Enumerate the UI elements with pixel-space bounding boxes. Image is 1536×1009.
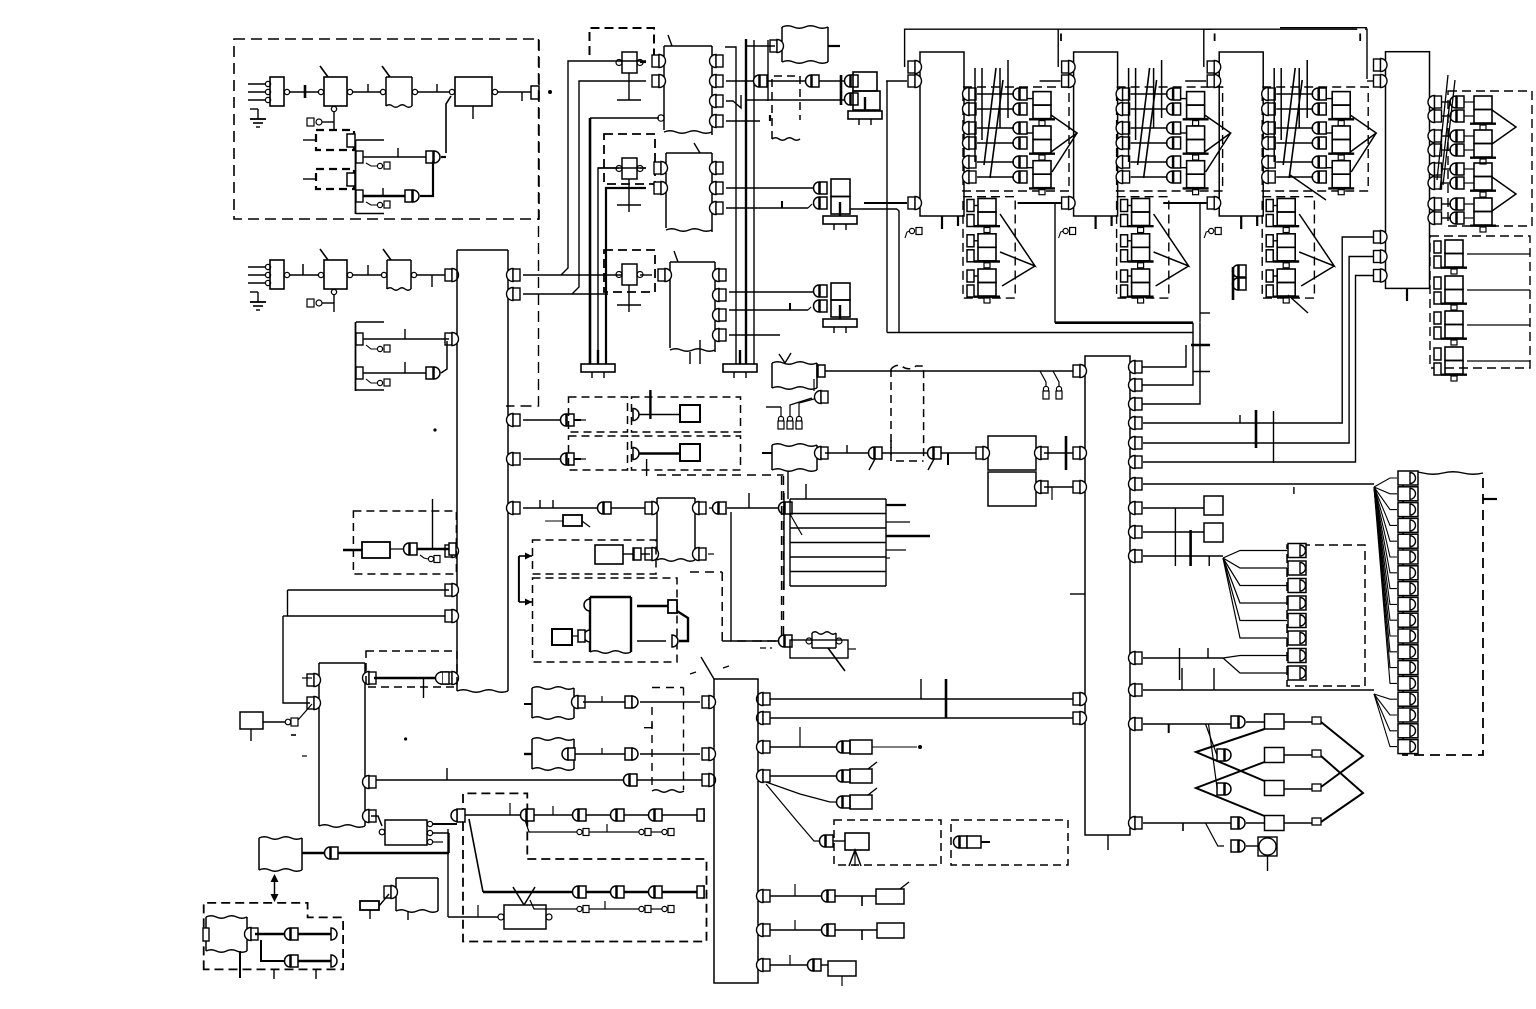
unit conn1 [1167, 103, 1173, 115]
subwire 832 [525, 820, 577, 832]
unit injwireB0a [1273, 205, 1277, 207]
chevron R1 [1321, 722, 1363, 787]
U4 bottom stub [1406, 288, 1408, 301]
switch S3 [324, 260, 347, 289]
unit top bus [1204, 29, 1357, 67]
unit injwireB1a [1273, 240, 1277, 242]
ECU2 Lpin487 [1073, 481, 1080, 493]
connector block B5 [270, 260, 284, 289]
conn fm2 [625, 748, 632, 760]
TB0 pin R3 [363, 810, 369, 823]
TB1 left pin 339 [445, 333, 452, 345]
unit wire4 [1276, 161, 1313, 163]
unit conn3 [1312, 137, 1318, 149]
wire RL1 out [640, 61, 646, 63]
wire w2c [417, 274, 448, 276]
wire row965 [766, 964, 808, 966]
wire row853 heavy [338, 852, 449, 854]
fan DB8 low [1223, 656, 1287, 659]
unit wire5 [1131, 176, 1168, 178]
fan DB18 bot [1374, 694, 1397, 699]
pin bus row1 [356, 151, 363, 163]
pin P_out [531, 86, 539, 99]
U4 wire1b [1442, 149, 1451, 151]
motor M2 [504, 905, 546, 929]
IC5 box [590, 596, 631, 598]
unit top bus [905, 29, 1058, 67]
U3 diag up [1290, 175, 1326, 200]
unit injwire1 [1181, 132, 1187, 134]
unit wire2 [1131, 127, 1168, 129]
dashed A1 [569, 397, 628, 432]
unit wire3 [1276, 142, 1313, 144]
wire row930b [835, 929, 877, 931]
ground G1 [597, 350, 599, 364]
fuel dash [760, 647, 772, 649]
unit pin L3 [908, 197, 915, 209]
IC1 left pin2 [652, 75, 659, 87]
unit wire L3 [1018, 202, 1061, 204]
radiator [790, 498, 886, 500]
unit l2 pin1a [967, 235, 974, 247]
wire RD out2 [1044, 486, 1077, 488]
U4 pinR0b [1428, 110, 1434, 123]
IC2 box [666, 152, 712, 154]
wire w1c [418, 91, 449, 93]
ECU2 Lpin453 [1073, 447, 1080, 459]
unit tall box [1074, 52, 1118, 216]
bus tick U3toU4 [1365, 29, 1367, 79]
TB2 top dashes [690, 672, 696, 674]
wire A2 out [420, 161, 433, 196]
wire row815 d [586, 814, 611, 816]
IC3 box [670, 261, 715, 263]
ECU2 Lpin699 [1073, 693, 1080, 705]
DB8 conn1 [1288, 561, 1306, 575]
flag FM2 [532, 738, 574, 741]
conn row815 e [611, 809, 617, 821]
xdiag feed2 [1206, 724, 1217, 755]
bracket bus [355, 322, 357, 391]
branch row373 [366, 379, 377, 383]
DB18 conn15 [1398, 708, 1418, 722]
wire x1b [1246, 721, 1264, 723]
box BH930 [877, 923, 904, 938]
dashed rect mid [651, 707, 653, 790]
bus bar top [1191, 344, 1210, 347]
unit conn5 [1013, 171, 1019, 183]
U4 conn2a [1450, 163, 1456, 175]
U3 diag low [1288, 295, 1308, 313]
vbus v736 [725, 47, 736, 364]
V antenna [513, 887, 524, 905]
U4b stub1 [1467, 289, 1530, 291]
U4b pin1a [1434, 277, 1441, 289]
wire IC2pinA L [598, 168, 646, 364]
dashed relay D2 [316, 130, 354, 150]
unit wire0 [977, 93, 1014, 95]
rect x2 [1312, 750, 1321, 757]
unit wire4 [1131, 161, 1168, 163]
DB18 conn17 [1398, 740, 1418, 754]
DB8 conn5 [1288, 631, 1306, 645]
fuel stub r [848, 648, 856, 650]
unit injector0 [1033, 92, 1051, 106]
B2 drop [646, 459, 648, 476]
U4 wire1a [1442, 135, 1451, 137]
gate A2 [405, 190, 412, 202]
IC4 in pin2 [645, 548, 652, 560]
TB2 pin L780 [702, 774, 709, 786]
unit dashed injbox [1117, 87, 1223, 191]
conn row459 [561, 453, 567, 465]
unit injwireB2a [1273, 275, 1277, 277]
U4 pinR3b [1428, 212, 1434, 225]
TB0 L1 stub [302, 677, 312, 679]
vbus v700 [699, 340, 701, 364]
AC bulb3 [796, 416, 801, 421]
bracket pin row339 [356, 333, 363, 345]
flag T1 pin [770, 40, 777, 52]
TB1 left pin 678 [445, 672, 452, 684]
unit wire5 [1276, 176, 1313, 178]
fan DB18 top [1374, 478, 1397, 487]
DB8 conn0 [1288, 544, 1306, 558]
wire w2b [353, 274, 381, 276]
unit arrow [1205, 115, 1231, 152]
ground G2 [739, 350, 741, 364]
feed U3 L3 [1200, 203, 1207, 323]
wire row508c [709, 507, 713, 509]
unit injector0 [1332, 92, 1350, 106]
DB18 conn11 [1398, 645, 1418, 659]
conn row815 g [649, 809, 655, 821]
wire row892 f [662, 891, 697, 893]
sensor S1 dbl [845, 75, 851, 87]
conn row420 [561, 414, 567, 426]
unit injector0 [1187, 92, 1205, 106]
unit conn0 [1013, 88, 1019, 100]
unit l2 pin1b [1266, 250, 1273, 262]
IC1 right pin3 [710, 95, 717, 108]
U4 conn3a [1450, 198, 1456, 210]
dashed DB18 [1403, 472, 1483, 755]
conn row747 [837, 741, 843, 753]
connector at S3 [307, 299, 314, 307]
conn row81 a [754, 75, 760, 87]
wire row453 c [882, 452, 928, 454]
U4b pin3a [1434, 348, 1441, 360]
S1 coil wire [333, 112, 335, 122]
chevron L2 [1196, 762, 1265, 816]
wire IC1pinB L [572, 81, 646, 294]
conn T551 [390, 548, 404, 550]
wire x5 [1246, 845, 1258, 847]
unit wire2 [1276, 127, 1313, 129]
wire row896b [835, 895, 876, 897]
IC3 right pin2 [713, 289, 720, 302]
unit l2 pin0b [1266, 215, 1273, 227]
TB1 right pin 508 [507, 502, 513, 515]
U4 pinR3a [1428, 198, 1434, 211]
unit pin L2 [1062, 75, 1069, 87]
unit bottom stub [1240, 216, 1242, 229]
conn row815 a [521, 809, 527, 821]
conn row892 e [649, 886, 655, 898]
U4b pin0b [1434, 256, 1441, 268]
drop conn b [1053, 371, 1059, 386]
unit wire1 [977, 108, 1014, 110]
unit l2 pin2b [967, 285, 974, 297]
unit injectorB2 [1277, 269, 1295, 283]
unit hatch [1138, 68, 1150, 165]
ground near B1 [250, 108, 258, 110]
wire row373 [363, 372, 426, 374]
chevron R2 [1321, 756, 1363, 822]
fuel pump wire [760, 640, 779, 642]
relay RL3 [622, 264, 637, 285]
fan F [766, 784, 820, 841]
ECU2 Rpin11 [1129, 652, 1136, 665]
AC bulb wires [766, 406, 781, 408]
box BG896 [876, 889, 904, 904]
fuel motor [812, 632, 836, 635]
dot row747 [918, 745, 922, 749]
DB18 conn14 [1398, 692, 1418, 706]
unit injectorB2 [1132, 269, 1150, 283]
TB2 pin R965 [757, 959, 763, 972]
DB18 right stub [1483, 498, 1497, 500]
dashed DM2 [533, 578, 678, 662]
outer dashed right [781, 476, 783, 640]
unit wire0 [1276, 93, 1313, 95]
ECU2 Rpin7 [1129, 478, 1136, 491]
box BD776 [850, 769, 872, 783]
gate A1 [426, 151, 433, 163]
wire w1d [498, 91, 531, 93]
wire row892 d [624, 891, 649, 893]
ECU2 Lpin371 [1073, 365, 1080, 377]
unit l2 pin2b [1121, 285, 1128, 297]
TB1 left pin 590 [445, 584, 452, 596]
unit dashed injbox [963, 87, 1069, 191]
TB2 pin L702 [702, 696, 709, 708]
stub D2 [303, 139, 316, 141]
dashed box RD2 [604, 134, 655, 184]
TB2 pin R930 [757, 924, 763, 937]
small box SBL [240, 712, 263, 729]
flag T1 [782, 26, 828, 29]
unit injwire0 [1326, 98, 1332, 100]
conn row896 [822, 890, 827, 902]
FM1 pin [572, 696, 579, 709]
TB0 pin L1 [307, 674, 314, 686]
unit wire L2 [886, 80, 907, 82]
dashed DM1 [533, 540, 657, 574]
unit pin R5 [1262, 171, 1268, 184]
unit injectorB1 [1132, 234, 1150, 248]
branch fb [261, 940, 285, 961]
unit conn3 [1013, 137, 1019, 149]
wire fm2b [640, 753, 700, 755]
box X3 [1265, 781, 1285, 796]
U1L2 drop [886, 81, 888, 333]
wire w1b [353, 91, 380, 93]
unit l2 pin0b [1121, 215, 1128, 227]
flag T1 stub [828, 45, 840, 47]
dot mid [404, 737, 407, 740]
TB0 box [319, 662, 365, 664]
unit pin R1 [1116, 103, 1123, 116]
wire row508 [523, 507, 598, 509]
end pin row892 [698, 886, 704, 898]
U4 dashed injbox2 [1430, 236, 1530, 368]
unit pin L2 [908, 75, 915, 87]
wire fb row934 [255, 933, 285, 935]
end d 961 [331, 955, 337, 967]
U4 injector0 [1474, 96, 1492, 110]
unit pin R5 [1116, 171, 1123, 184]
unit hatch [984, 68, 996, 165]
dashed DBB [463, 859, 707, 942]
ECU-A tall box [457, 249, 508, 251]
DB8 conn2 [1288, 579, 1306, 593]
dashed DBH2 [951, 820, 1068, 865]
IC4 right pin [693, 502, 699, 515]
conn row780 [624, 774, 630, 786]
U4 conn1b [1450, 144, 1456, 156]
unit pin R0 [963, 88, 969, 101]
TB0 pin R2 [363, 776, 369, 789]
unit injector2 [1033, 161, 1051, 175]
unit wire1 [1276, 108, 1313, 110]
wire B4 to gate bus [446, 96, 451, 153]
DB18 conn13 [1398, 676, 1418, 690]
unit injectorB1 [978, 234, 996, 248]
wire fm2 [575, 753, 625, 755]
xdiag feed3 [1209, 724, 1218, 789]
box DM1s [595, 545, 623, 564]
unit l2 pin2a [967, 270, 974, 282]
unit pin R0 [1262, 88, 1268, 101]
bigD pin DBM [457, 809, 465, 822]
rect x3 [1312, 784, 1321, 791]
flag FL [259, 837, 302, 840]
wire IC3 row295 [729, 291, 814, 293]
unit pin L2 [1207, 75, 1214, 87]
DB18 conn5 [1398, 550, 1418, 564]
wire IC3 row315 [729, 309, 808, 311]
bracket pin row373 [356, 367, 363, 379]
wire row896 [766, 895, 822, 897]
unit l2 pin1a [1121, 235, 1128, 247]
unit l2 pin1b [1121, 250, 1128, 262]
unit conn4 [1312, 156, 1318, 168]
wire row508b [611, 507, 653, 509]
unit l2 pin1b [967, 250, 974, 262]
wire row747b [872, 746, 917, 748]
connector at S1 [307, 118, 314, 126]
pin into TB1 row275 [445, 269, 452, 281]
IC2 right pin3 [710, 202, 716, 215]
wire row556 [1143, 555, 1223, 557]
wire row815 h [662, 814, 697, 816]
RD pin in [976, 447, 983, 459]
wire row780 long [374, 779, 624, 781]
unit l2 pin0a [1266, 200, 1273, 212]
IC2 right pin2 [710, 182, 717, 195]
unit wire5 [977, 176, 1014, 178]
unit injector1 [1187, 126, 1205, 140]
DB18 conn9 [1398, 613, 1418, 627]
oconn 909a [577, 906, 582, 911]
unit l2 pin2b [1266, 285, 1273, 297]
stub D3 [303, 178, 316, 180]
wire row1 [363, 156, 426, 158]
wire SBL [263, 721, 285, 723]
conn row776 [837, 770, 843, 782]
diag fuel feed [790, 514, 802, 535]
wire TB1L590 [288, 589, 450, 591]
TB1 pin551 dup [449, 543, 456, 555]
dashed A2 [569, 436, 628, 470]
wire row443 [1143, 257, 1377, 444]
RD pin out2 [1035, 481, 1042, 494]
wire loop616 [288, 590, 450, 616]
end pin row815 [698, 809, 704, 821]
unit injector1 [1033, 126, 1051, 140]
wire row81 d [819, 80, 845, 82]
wire fm1 [583, 701, 625, 703]
wire row190 [726, 187, 820, 189]
wire row780b [637, 779, 706, 781]
wire row718 [766, 717, 1077, 719]
U4 pinR1a [1428, 130, 1434, 143]
DB18 conn8 [1398, 597, 1418, 611]
ECU2 Rpin4 [1129, 417, 1136, 430]
wire row892 heavy [483, 891, 573, 893]
diag SBL [298, 704, 312, 720]
ECU2 Rpin10 [1129, 550, 1136, 563]
motor M5 [1258, 837, 1277, 856]
conn x5 [1231, 840, 1238, 852]
box T551 [362, 542, 390, 558]
relay RL2 [622, 158, 637, 179]
relay B4 [455, 77, 492, 106]
end d 934 [331, 928, 337, 940]
wire row930 [766, 929, 822, 931]
wire fb row961b [298, 960, 331, 962]
unit injwire1 [1326, 132, 1332, 134]
tick1209 [1208, 556, 1210, 566]
TB2 pin R776 [757, 770, 763, 783]
box BI965 [828, 961, 856, 976]
dashed relay D3 [316, 169, 354, 189]
U4 pinR1b [1428, 144, 1434, 157]
unit injwire2 [1027, 167, 1033, 169]
conn row841 [820, 835, 826, 847]
IC5 left pin1 [584, 599, 590, 611]
unit pin R4 [1262, 156, 1268, 169]
fuel diag [828, 648, 845, 671]
conn DM1 [633, 548, 639, 560]
wire row459 [523, 458, 561, 460]
U4 pinR2a [1428, 163, 1434, 176]
unit tall box [920, 52, 964, 216]
unit conn3 [1167, 137, 1173, 149]
conn x2 [1217, 749, 1224, 761]
P stub [407, 911, 409, 920]
